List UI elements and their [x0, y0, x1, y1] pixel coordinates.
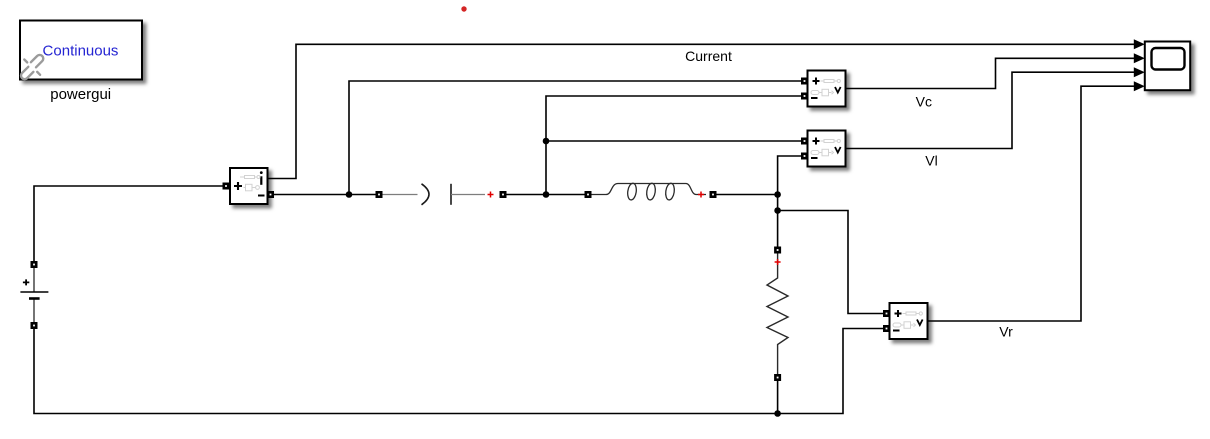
Vr signal label	[999, 324, 1013, 340]
wire: node B tee to Vl plus input	[546, 140, 803, 142]
svg-text:Current: Current	[685, 48, 732, 64]
capacitor left port	[376, 191, 383, 198]
node B junction dot	[543, 191, 550, 198]
Vl signal label	[925, 153, 937, 169]
wire: node B up to Vc minus input	[546, 96, 803, 195]
DC voltage source battery	[20, 268, 48, 324]
Vl plus port	[801, 138, 808, 145]
svg-text:powergui: powergui	[50, 86, 111, 103]
inductor left port	[585, 191, 592, 198]
Current signal label	[685, 48, 732, 64]
Vl minus port	[801, 153, 808, 160]
voltage measurement block Vr	[890, 303, 928, 339]
wire: Vl output signal to scope input 3	[846, 72, 1137, 148]
powergui block	[20, 21, 142, 80]
inductor red plus polarity mark	[698, 192, 704, 198]
wire: Vr output signal to scope input 4	[928, 86, 1137, 321]
scope input arrow 3	[1134, 67, 1145, 77]
Vc plus port	[801, 78, 808, 85]
resistor top port	[774, 247, 781, 254]
capacitor C (breaker-style icon)	[381, 184, 485, 205]
current measurement block left port	[223, 183, 230, 190]
current measurement block right port	[267, 191, 274, 198]
node B upper junction dot	[543, 138, 550, 145]
voltage measurement block Vl	[808, 131, 846, 167]
capacitor right port	[500, 191, 507, 198]
wire: current measurement signal to scope input 1	[268, 44, 1137, 178]
voltage measurement block Vc	[808, 71, 846, 107]
node A junction dot	[346, 191, 353, 198]
scope block	[1145, 42, 1190, 91]
wire: node C up to Vl minus input, down to resistor top	[778, 156, 803, 248]
scope input arrow 2	[1134, 53, 1145, 63]
svg-text:Vl: Vl	[925, 153, 937, 169]
capacitor red plus polarity mark	[488, 192, 494, 198]
battery top port	[31, 261, 38, 268]
resistor red plus polarity mark	[775, 259, 781, 265]
resistor bottom port	[774, 374, 781, 381]
node C lower junction dot	[774, 207, 781, 214]
current measurement block U1	[230, 168, 268, 204]
scope input arrow 1	[1134, 39, 1145, 49]
bottom rail junction dot	[774, 410, 781, 417]
wire: node A up to Vc plus input	[349, 81, 803, 195]
svg-text:Continuous: Continuous	[43, 42, 119, 59]
red annotation dot	[461, 6, 466, 11]
wire: Vc output signal to scope input 2	[846, 58, 1137, 88]
Vc minus port	[801, 93, 808, 100]
wire: inductor right port to node C	[713, 194, 778, 196]
wire: resistor bottom to bottom rail	[777, 380, 779, 414]
wire: capacitor right port to inductor left port	[504, 194, 587, 196]
wire: bottom rail from battery minus to Vr minus input	[34, 329, 886, 414]
svg-text:Vr: Vr	[999, 324, 1013, 340]
Vr plus port	[883, 310, 890, 317]
wire: battery plus to current-meter input	[34, 186, 224, 265]
resistor R zigzag	[767, 253, 788, 374]
inductor right port	[710, 191, 717, 198]
scope input arrow 4	[1134, 81, 1145, 91]
powergui broken-link icon	[20, 53, 45, 80]
wire: current-meter minus to capacitor left port	[270, 194, 378, 196]
powergui Continuous text	[43, 42, 119, 59]
svg-text:Vc: Vc	[916, 93, 932, 109]
node C junction dot	[774, 191, 781, 198]
battery bottom port	[31, 322, 38, 329]
inductor L coil	[591, 183, 706, 201]
powergui label	[50, 86, 111, 103]
Vc signal label	[916, 93, 932, 109]
wire: node C tee to Vr plus input	[778, 211, 886, 314]
Vr minus port	[883, 325, 890, 332]
